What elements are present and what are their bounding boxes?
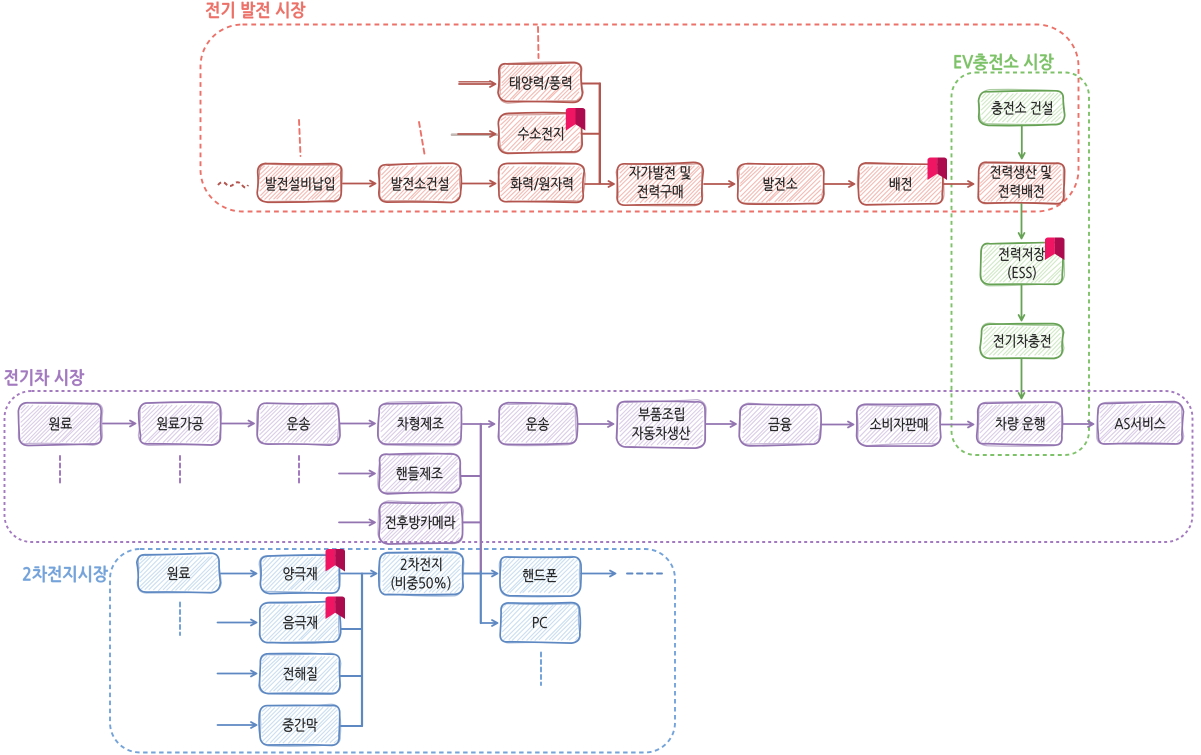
box 전력생산 및 전력배전 [978,162,1065,204]
arrow 원료→원료가공 [103,421,136,427]
hint dashed below 원료가공 [179,456,181,485]
box 차형제조 [378,402,462,446]
arrow into 전해질 [218,671,257,677]
wire 중간막 stub [341,725,362,727]
wire 전해질 stub [341,675,362,677]
arrow 전력생산→전력저장 (down) [1019,204,1025,239]
bookmark on 양극재 [326,549,336,572]
dashed stub after 핸드폰 [627,573,662,575]
box 차량 운행 [977,402,1063,447]
wire solar/fuel-cell collector vertical [599,84,601,184]
wire 태양력/풍력 stub [582,83,600,85]
arrow 부품조립→금융 [706,421,736,427]
box 발전소 [737,163,824,204]
wire battery collector vertical [361,574,363,727]
arrow 원료→양극재 [221,571,257,577]
box 전해질 [259,653,341,694]
arrow into 중간막 [218,722,257,728]
box 2차전지 (비중50%) [379,551,464,596]
wire gray underlay into 수소전지 [452,133,497,136]
title: EV충전소 시장 [954,54,1053,71]
arrow 운송2→부품조립 [578,421,614,427]
wire 음극재 stub [341,628,362,630]
arrow 전력저장→전기차충전 (down) [1019,286,1025,321]
arrow 소비자판매→차량운행 [941,422,974,428]
container: secondary battery market (blue) [110,549,675,753]
box 핸드폰 [499,556,581,596]
box 원료가공 [138,402,221,445]
arrow 배전→전력생산 [944,181,974,187]
arrow into 수소전지 [458,131,496,137]
arrow 차형제조→운송2 [463,421,495,427]
wire 수소전지 stub [582,133,600,135]
hint dashed below 원료(battery) [179,603,181,636]
bookmark on 음극재 [326,597,336,620]
box AS서비스 [1097,402,1184,445]
box 발전설비납입 [257,163,342,202]
box 배전 [857,163,944,205]
arrow trunk→핸드폰 [481,571,498,577]
title: 2차전지시장 [23,566,108,583]
arrow 발전소→배전 [824,181,855,187]
box 양극재 [259,554,340,593]
box 전력저장(ESS) [980,242,1064,286]
container: EV charging market (green) [952,73,1090,456]
arrow 자가발전→발전소 [704,181,735,187]
hint dashed from container top [537,27,540,58]
box 자가발전 및 전력구매 [616,162,703,206]
box 충전소 건설 [978,89,1064,125]
box 금융 [739,403,821,446]
wire 2차전지→trunk [463,573,481,575]
wire 핸들제조 right stub [461,475,481,477]
hint dashed above 발전설비납입 [299,120,301,156]
box 전기차충전 [980,323,1064,359]
box 운송 (EV-2) [498,403,578,446]
arrow 차량운행→AS서비스 [1064,421,1094,427]
box 수소전지 [498,113,582,154]
title: 전기차 시장 [4,369,84,386]
bookmark on 수소전지 [566,108,576,131]
bookmark on 전력저장 [1045,238,1055,261]
box 운송 (EV-1) [257,403,340,445]
arrow 양극재→2차전지 [341,571,377,577]
box 핸들제조 [378,453,461,494]
arrow 발전설비납입→발전소건설 [343,181,376,187]
title: 전기 발전 시장 [206,2,305,19]
bookmark on 배전 [928,158,938,181]
arrow 운송→차형제조 [340,421,375,427]
arrow 전기차충전→차량운행 (down) [1019,359,1025,399]
wire trunk down (blue part) [480,572,482,624]
wire trunk 차형제조 down to battery junction [480,424,482,572]
box 원료 (battery) [137,553,222,593]
arrow into 전후방카메라 [339,520,375,526]
container: electricity generation market (red) [201,25,1079,212]
container: EV market (purple) [5,391,1193,542]
box 화력/원자력 [498,163,585,202]
box 부품조립 자동차생산 [617,400,707,449]
hint dashed below PC [540,653,542,686]
arrow 발전소건설→화력/원자력 [462,181,496,187]
hint dashed above 발전소건설 [419,122,425,157]
arrow 원료가공→운송 [222,421,255,427]
arrow into 핸들제조 [339,471,375,477]
arrow 화력/원자력→자가발전 [585,181,614,187]
box 태양력/풍력 [498,62,583,103]
arrow into 태양력/풍력 [459,81,492,83]
arrow 금융→소비자판매 [821,422,854,428]
hint dashed below 원료(EV) [59,456,61,485]
box 음극재 [260,601,341,643]
box PC [500,603,580,644]
arrow 핸드폰 out [581,571,616,577]
arrow 충전소건설→전력생산 (down) [1019,126,1025,159]
box 소비자판매 [857,404,942,446]
wire 전후방카메라 right stub [463,521,481,523]
box 발전소건설 [379,163,462,203]
squiggle left of 발전설비납입 [218,182,248,187]
box 전후방카메라 [378,501,463,544]
box 원료 (EV) [18,402,103,445]
hint dashed below 운송 [298,456,300,485]
arrow trunk→PC [481,620,498,626]
arrow into 음극재 [218,620,257,626]
box 중간막 [259,704,341,746]
